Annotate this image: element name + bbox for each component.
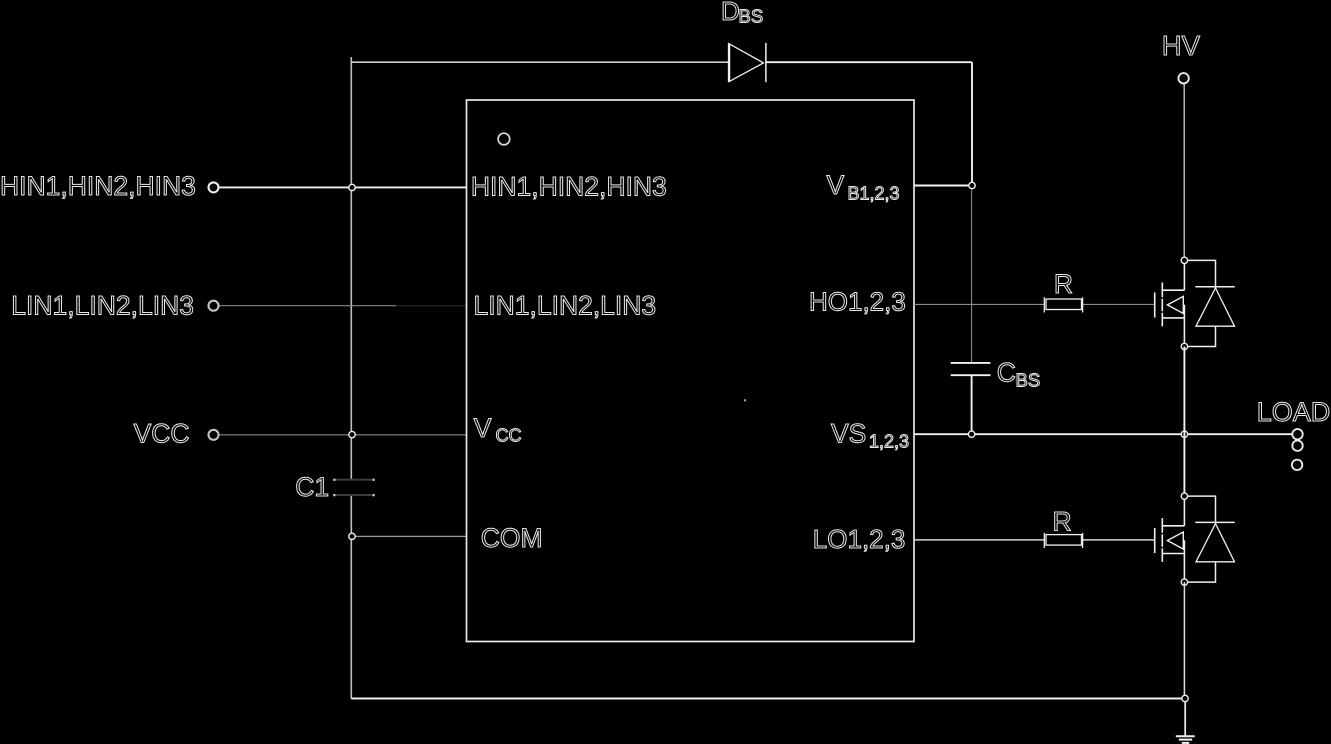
wire LIN (faint continuation) [396,305,467,307]
resistor R (low side) [1044,533,1082,548]
terminal LOAD phase 1 [1292,429,1302,439]
transistor Q2 (low side MOSFET) [1155,496,1185,582]
wire: bus below C1 to bottom rail [350,495,352,699]
svg-text:1,2,3: 1,2,3 [869,432,909,452]
resistor R (high side) [1044,297,1082,312]
svg-text:HO1,2,3: HO1,2,3 [809,287,906,317]
wire VCC [220,434,467,436]
svg-text:LIN1,LIN2,LIN3: LIN1,LIN2,LIN3 [11,291,194,321]
transistor Q1 (high side MOSFET) [1155,260,1185,346]
wire Q2 source to bottom rail [1183,582,1185,698]
svg-text:COM: COM [481,523,543,553]
junction COM/bus [349,533,355,539]
wire LO [914,539,1044,541]
junction Q1 source [1181,343,1187,349]
svg-text:HIN1,HIN2,HIN3: HIN1,HIN2,HIN3 [471,171,667,201]
diode DBS [729,43,766,82]
IC U1 body [467,100,915,642]
junction VS/phase [1181,431,1187,437]
wire: top rail left of diode [351,61,728,63]
svg-text:LIN1,LIN2,LIN3: LIN1,LIN2,LIN3 [474,291,657,321]
terminal HV [1178,73,1188,83]
svg-text:HIN1,HIN2,HIN3: HIN1,HIN2,HIN3 [0,171,196,201]
junction VS/CBS [968,431,974,437]
wire HO [914,303,1044,305]
ground [1176,736,1195,743]
wire to ground [1184,702,1186,736]
capacitor C1 [334,480,374,495]
junction Q1 drain [1181,257,1187,263]
wire: top rail right of diode [766,61,972,63]
wire: drop to VB node [971,62,973,185]
wire HV down to Q1 drain [1183,84,1185,260]
IC stray dot [744,399,746,401]
wire COM [352,535,467,537]
svg-text:CC: CC [496,426,522,446]
terminal HIN [209,182,219,192]
svg-text:R: R [1054,269,1073,299]
svg-text:LO1,2,3: LO1,2,3 [813,524,906,554]
wire HIN [220,186,467,188]
svg-text:C: C [997,358,1016,388]
svg-text:V: V [827,170,845,200]
terminal LOAD phase 2 [1292,441,1302,451]
junction bottom rail / ground [1182,695,1188,701]
wire VB pin stub [914,185,972,187]
svg-text:R: R [1053,507,1072,537]
wire CBS to VS [971,375,973,434]
capacitor CBS [951,363,991,375]
svg-text:LOAD: LOAD [1257,397,1331,427]
svg-text:VCC: VCC [134,419,190,449]
wire: VCC vertical bus x=351 (top rail to C1) [350,57,352,480]
svg-text:V: V [474,413,492,443]
diode D2 (body diode Q2) [1184,496,1234,582]
terminal VCC [209,430,219,440]
junction VCC/bus [349,431,355,437]
terminal LOAD phase 3 [1292,460,1302,470]
diode D1 (body diode Q1) [1184,260,1234,346]
wire: phase vertical Q1 source to Q2 drain [1183,347,1185,497]
IC pin1 indicator circle [498,133,510,145]
junction VB node [969,182,975,188]
junction HIN/bus [349,184,355,190]
svg-text:VS: VS [831,419,866,449]
wire LIN [220,305,397,307]
wire: bottom rail [351,698,1185,700]
wire: bootstrap vertical to CBS [971,189,973,363]
junction Q2 source [1181,579,1187,585]
svg-text:B1,2,3: B1,2,3 [848,184,900,204]
svg-text:BS: BS [739,6,764,27]
terminal LIN [209,301,219,311]
wire VS row [914,433,1292,435]
svg-text:BS: BS [1016,370,1041,391]
svg-text:C1: C1 [295,472,329,502]
svg-text:HV: HV [1162,30,1201,61]
svg-text:D: D [721,0,740,26]
junction Q2 drain [1181,493,1187,499]
